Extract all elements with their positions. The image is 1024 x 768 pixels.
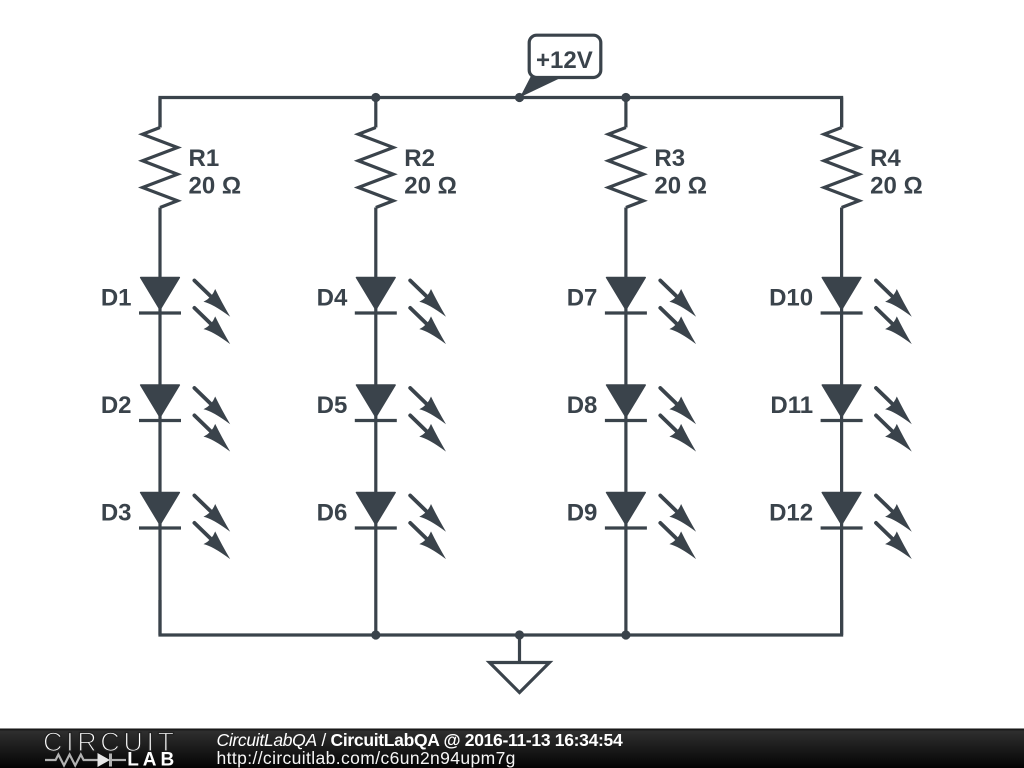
- svg-text:D5: D5: [317, 392, 348, 419]
- svg-text:CircuitLabQA / CircuitLabQA @: CircuitLabQA / CircuitLabQA @ 2016-11-13…: [217, 730, 623, 750]
- svg-text:http://circuitlab.com/c6un2n94: http://circuitlab.com/c6un2n94upm7g: [217, 748, 516, 768]
- svg-text:20 Ω: 20 Ω: [189, 173, 242, 200]
- svg-text:R3: R3: [654, 145, 685, 172]
- svg-text:R1: R1: [189, 145, 220, 172]
- svg-text:D4: D4: [317, 285, 348, 312]
- svg-text:D12: D12: [769, 500, 813, 527]
- svg-text:D11: D11: [770, 392, 813, 419]
- svg-text:D10: D10: [769, 285, 813, 312]
- svg-text:D2: D2: [101, 392, 132, 419]
- svg-text:D8: D8: [567, 392, 598, 419]
- svg-text:D3: D3: [101, 500, 132, 527]
- svg-text:20 Ω: 20 Ω: [404, 173, 457, 200]
- svg-text:LAB: LAB: [127, 750, 178, 768]
- svg-text:D1: D1: [101, 285, 132, 312]
- svg-text:R2: R2: [404, 145, 435, 172]
- svg-text:D9: D9: [567, 500, 598, 527]
- svg-text:D6: D6: [317, 500, 348, 527]
- svg-text:20 Ω: 20 Ω: [654, 173, 707, 200]
- svg-text:20 Ω: 20 Ω: [870, 173, 923, 200]
- svg-text:R4: R4: [870, 145, 901, 172]
- svg-text:D7: D7: [567, 285, 598, 312]
- svg-text:+12V: +12V: [536, 47, 593, 74]
